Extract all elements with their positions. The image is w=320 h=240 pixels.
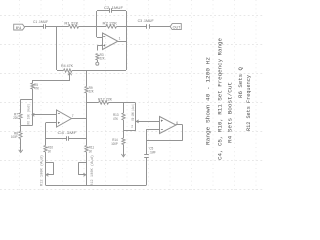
- label C3 .1MUF: [138, 19, 155, 23]
- wire R15 wiper to U3: [136, 121, 159, 123]
- wire R10 top: [45, 139, 47, 146]
- svg-text:R12 100K (Aud): R12 100K (Aud): [90, 155, 95, 186]
- note frequency: [245, 74, 252, 131]
- svg-text:22K: 22K: [100, 57, 106, 61]
- R12b wiper loop: [78, 163, 86, 177]
- wire R7 top: [20, 99, 22, 113]
- resistor R3: [96, 54, 99, 61]
- label R7 22K: [13, 112, 19, 120]
- note range shown: [205, 56, 212, 145]
- svg-text:2: 2: [131, 125, 133, 129]
- wire R13 bottom to node: [123, 120, 125, 131]
- svg-text:R2 22K: R2 22K: [103, 21, 118, 25]
- wire Q net top: [21, 99, 33, 101]
- capacitor C4: [67, 136, 69, 141]
- wire R14 to ground: [123, 145, 125, 156]
- svg-text:1: 1: [119, 36, 121, 40]
- label C5 .1MF: [149, 146, 156, 154]
- R15 wiper arrow: [136, 120, 138, 123]
- wire U3 output: [176, 124, 183, 126]
- U2 pin 7: [72, 114, 74, 118]
- resistor R14: [122, 138, 125, 145]
- capacitor C1: [44, 24, 46, 29]
- wire U1 noninverting input: [97, 45, 102, 50]
- connector J1 IN flag: [14, 24, 25, 30]
- wire U3 feedback bottom: [146, 140, 182, 142]
- U1 plus mark: [103, 44, 105, 46]
- potentiometer R4 element: [64, 69, 73, 72]
- svg-text:C3 .1MUF: C3 .1MUF: [138, 19, 155, 23]
- ground arrow below R8: [19, 150, 23, 153]
- svg-text:R4 47K: R4 47K: [61, 64, 73, 68]
- wire R9 to U2 output node: [86, 93, 88, 119]
- wire R5 to Q network: [32, 89, 34, 99]
- resistor R13: [122, 113, 125, 120]
- resistor R11: [85, 146, 88, 153]
- wire inverting node vertical: [96, 11, 98, 27]
- wire R8 top: [20, 125, 22, 131]
- svg-text:1K: 1K: [89, 149, 93, 153]
- svg-text:OUT: OUT: [173, 26, 182, 30]
- wire R11 top: [86, 139, 88, 146]
- label R6 10K (Aud): [26, 104, 31, 125]
- resistor R2: [106, 25, 117, 28]
- U2 minus mark: [58, 113, 60, 115]
- svg-text:R12 22K: R12 22K: [98, 98, 112, 102]
- wire output node vertical: [126, 11, 128, 70]
- wire U3 feedback left vertical: [146, 129, 148, 140]
- R4 wiper arrow: [68, 73, 72, 81]
- node A junction boost leg: [56, 27, 58, 70]
- wire C1 to R1: [46, 26, 69, 28]
- potentiometer R15 body: [135, 103, 137, 123]
- label R2 22K: [103, 21, 118, 25]
- wire R12 right: [109, 102, 136, 104]
- label R8 100P: [11, 131, 18, 139]
- wire U1 output: [118, 41, 126, 43]
- resistor R7: [19, 113, 22, 119]
- ground arrow below R14: [121, 154, 125, 157]
- wire output line to C3: [126, 26, 147, 28]
- wire R1 to inverting node: [79, 26, 97, 28]
- U3 pin 6: [176, 121, 178, 125]
- U3 pin 2 label: [131, 125, 133, 129]
- svg-text:IN: IN: [16, 26, 22, 30]
- capacitor C5: [144, 155, 149, 158]
- label R12a 100K (Aud): [40, 155, 45, 186]
- wire C3 to OUT: [149, 26, 170, 28]
- svg-text:R6 10K (Aud): R6 10K (Aud): [26, 104, 31, 125]
- svg-text:7: 7: [72, 114, 74, 118]
- note Q: [237, 66, 244, 98]
- svg-text:22K: 22K: [89, 90, 95, 94]
- wire R8 to ground: [20, 139, 22, 152]
- svg-text:R9 10K (Aud): R9 10K (Aud): [131, 104, 136, 121]
- wire R14 top: [123, 131, 125, 138]
- label R15 10K (Aud): [131, 104, 136, 121]
- resistor R10: [44, 146, 47, 153]
- wire R6 wiper to U2: [33, 114, 57, 116]
- op-amp U3: [160, 117, 177, 134]
- wire bottom rail: [46, 185, 147, 187]
- wire U2 output: [72, 118, 87, 120]
- wire R7 bottom: [20, 119, 22, 125]
- svg-text:100P: 100P: [11, 135, 18, 139]
- U1 pin 1: [119, 36, 121, 40]
- wire U2 noninverting input: [46, 122, 57, 124]
- op-amp U1: [103, 33, 118, 50]
- U3 plus mark: [161, 120, 163, 122]
- op-amp U2: [57, 110, 72, 127]
- wire C2 top right: [112, 10, 126, 12]
- label R14 100P: [111, 138, 118, 146]
- svg-text:C4 .1MF: C4 .1MF: [58, 131, 78, 135]
- label R5 47K: [34, 83, 40, 91]
- resistor R9: [85, 87, 88, 94]
- wire U1 inverting input: [97, 27, 103, 38]
- wire R5 top: [32, 81, 34, 83]
- svg-text:22K: 22K: [13, 116, 19, 120]
- wire node stub to pot bottom: [123, 130, 135, 132]
- svg-text:Range Shown 40 - 1200 Hz: Range Shown 40 - 1200 Hz: [205, 56, 212, 145]
- wire R2 right: [117, 26, 127, 28]
- wire R2 left: [97, 26, 106, 28]
- svg-text:C2 .1MUF: C2 .1MUF: [104, 6, 124, 10]
- wire IN to C1: [25, 26, 43, 28]
- wire U2 output node down: [86, 119, 88, 140]
- wire R13 top: [123, 103, 125, 113]
- svg-text:1K: 1K: [48, 149, 52, 153]
- label R4 47K: [61, 64, 73, 68]
- resistor R12: [99, 101, 109, 104]
- svg-text:R12 100K (Aud): R12 100K (Aud): [40, 155, 45, 186]
- wire R12 left: [86, 102, 98, 104]
- svg-text:C1 .1MUF: C1 .1MUF: [33, 20, 49, 24]
- wire R15 bottom: [135, 123, 137, 131]
- svg-text:100P: 100P: [111, 142, 118, 146]
- label R11 1K: [89, 146, 95, 154]
- label R12b 100K (Aud): [90, 155, 95, 186]
- svg-text:R12 Sets Frequency: R12 Sets Frequency: [245, 74, 252, 131]
- wire R9 top: [86, 70, 88, 87]
- R6 wiper arrow: [32, 113, 34, 116]
- label R9 22K: [89, 86, 95, 94]
- svg-text:R1 22K: R1 22K: [64, 22, 79, 26]
- wire box bottom left: [57, 70, 64, 72]
- wire U3 output down: [182, 125, 184, 141]
- label C4 .1MF: [58, 131, 78, 135]
- svg-text:47K: 47K: [34, 87, 40, 91]
- resistor R1: [69, 25, 79, 28]
- label C2 .1MUF: [104, 6, 124, 10]
- wire R3 to ground: [97, 60, 99, 62]
- capacitor C2: [110, 8, 112, 13]
- potentiometer R12a body: [45, 152, 47, 185]
- U2 plus mark: [58, 122, 60, 124]
- svg-text:47K: 47K: [113, 117, 119, 121]
- wire C5 top: [146, 141, 148, 155]
- wire Q net bottom: [21, 125, 33, 127]
- U1 minus mark: [103, 36, 105, 38]
- wire C2 top left: [97, 10, 109, 12]
- resistor R8: [19, 132, 22, 139]
- potentiometer R6 body: [32, 99, 34, 125]
- svg-text:.1MF: .1MF: [149, 150, 156, 154]
- label R3 22K: [100, 53, 106, 61]
- connector J2 OUT flag: [170, 24, 181, 30]
- svg-text:C4, C5, R10, R11 Set Freqency: C4, C5, R10, R11 Set Freqency Range: [217, 37, 224, 160]
- potentiometer R12b body: [86, 152, 88, 185]
- label C1 .1MUF: [33, 20, 49, 24]
- capacitor C3: [147, 24, 150, 29]
- note frequency range: [217, 37, 224, 160]
- note boost cut: [227, 82, 234, 143]
- U3 minus mark: [161, 129, 163, 131]
- ground terminal circle: [96, 62, 99, 65]
- wire C4 left: [46, 138, 67, 140]
- label R12 22K: [98, 98, 112, 102]
- R12a wiper loop: [46, 163, 54, 177]
- wire box bottom right: [72, 70, 126, 72]
- svg-text:R6 Sets Q: R6 Sets Q: [237, 66, 244, 98]
- label R1 22K: [64, 22, 79, 26]
- label R13 47K: [113, 113, 119, 121]
- label R10 1K: [48, 146, 54, 154]
- wire wiper to R5: [32, 80, 70, 82]
- wire C4 right: [69, 138, 87, 140]
- wire U3 noninverting input: [146, 129, 159, 131]
- resistor R5: [31, 83, 34, 89]
- wire C5 bottom: [146, 157, 148, 185]
- wire U2 plus down to C4 node: [45, 123, 47, 139]
- svg-text:R4 Sets Boost/Cut: R4 Sets Boost/Cut: [227, 82, 234, 143]
